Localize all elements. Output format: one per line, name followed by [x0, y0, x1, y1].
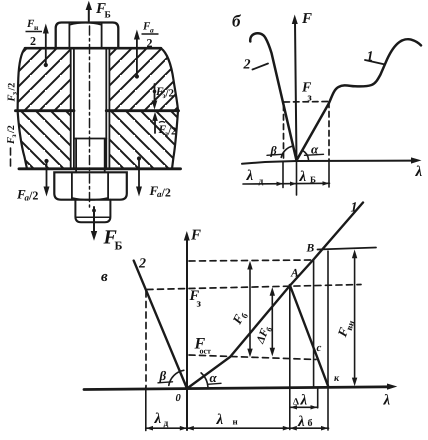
svg-text:a: a: [150, 26, 154, 35]
vertical through K: [327, 251, 329, 430]
svg-text:в: в: [101, 269, 108, 285]
svg-text:б: б: [232, 12, 242, 31]
svg-text:з: з: [197, 298, 202, 310]
svg-text:к: к: [334, 373, 340, 384]
force arrow Fa/2 top-right: [136, 37, 138, 76]
svg-text:з: з: [10, 92, 19, 95]
bottom plate bottom edge: [19, 167, 181, 170]
dimension dF_B vertical: [271, 292, 273, 352]
dashed drop right graph b: [328, 102, 330, 161]
axis lambda graph b: [242, 161, 414, 164]
dashed drop at line 2: [145, 291, 147, 387]
svg-text:1: 1: [367, 50, 374, 65]
svg-text:/2: /2: [167, 126, 177, 138]
svg-text:β: β: [159, 368, 167, 383]
line AK graph v: [290, 285, 328, 386]
svg-text:α: α: [210, 370, 218, 385]
svg-text:λ: λ: [216, 412, 224, 428]
force arrow F_B top: [88, 6, 90, 21]
angle beta arc graph b: [281, 146, 293, 157]
angle alpha arc graph v: [201, 373, 208, 387]
curve 1 graph b: [297, 39, 422, 160]
bolt axis center line: [89, 26, 91, 207]
svg-text:Б: Б: [310, 175, 316, 185]
joint interface line: [16, 109, 179, 112]
hatch bottom-right plate: [109, 111, 178, 169]
dashed level F_ost: [189, 355, 316, 360]
svg-text:ост: ост: [200, 347, 212, 356]
pointer for label 1: [365, 60, 385, 65]
dimension F_B vertical: [249, 266, 251, 352]
svg-text:з: з: [308, 93, 312, 104]
force arrow Fz/2 right upper (down at interface): [154, 84, 156, 103]
dashed Fz level through A: [147, 285, 361, 290]
threaded shank lines: [76, 139, 105, 173]
force arrow Fa/2 bottom-left: [46, 162, 48, 189]
svg-text:/2: /2: [165, 88, 175, 100]
angle alpha arc graph b: [303, 150, 309, 159]
svg-text:0: 0: [176, 393, 182, 404]
svg-text:A: A: [290, 268, 299, 280]
svg-text:λ: λ: [299, 169, 307, 185]
svg-text:д: д: [164, 419, 169, 429]
svg-text:F: F: [301, 11, 312, 27]
svg-text:2: 2: [138, 257, 146, 272]
svg-text:/2: /2: [6, 125, 17, 134]
label F_BN rotated: [334, 317, 356, 341]
svg-text:2: 2: [147, 36, 153, 50]
bolt head: [56, 23, 119, 49]
plate right edge top: [161, 48, 178, 110]
force arrow Fn/2 top-left: [45, 31, 47, 64]
svg-text:α: α: [311, 142, 319, 157]
svg-text:/2: /2: [161, 186, 171, 200]
thread start line: [74, 138, 106, 140]
label dF_B rotated: [254, 324, 274, 347]
svg-text:λ: λ: [297, 414, 305, 430]
vertical through B: [313, 260, 315, 388]
left edge small marks: [10, 148, 12, 166]
svg-text:c: c: [317, 342, 322, 354]
label F_B rotated: [229, 308, 251, 328]
svg-text:н: н: [34, 23, 39, 32]
dimension delta-lambda row: [290, 406, 317, 408]
svg-text:F: F: [190, 228, 201, 244]
vertical through A: [289, 286, 291, 430]
label Fz/2 left rotated upper: [7, 83, 19, 103]
dimension F_BN vertical: [354, 255, 356, 381]
dimension row graph b: [243, 182, 330, 185]
svg-text:/2: /2: [28, 189, 38, 203]
svg-text:д: д: [259, 177, 264, 187]
svg-text:λ: λ: [300, 393, 308, 409]
curve 2 graph b: [250, 33, 296, 160]
svg-text:2: 2: [30, 34, 36, 48]
force arrow Fa/2 bottom-right: [138, 159, 140, 189]
top plate top edge: [25, 47, 161, 50]
plate left edge bottom: [18, 111, 27, 169]
extension verticals graph b: [283, 161, 329, 195]
nut: [54, 172, 127, 199]
hatch top-right plate: [109, 48, 178, 110]
svg-text:б: б: [308, 418, 313, 429]
axis F graph v: [186, 239, 188, 430]
extension below at line 2 drop: [145, 387, 147, 431]
force arrow F_B bottom: [93, 207, 95, 233]
svg-text:Δ: Δ: [293, 398, 299, 408]
svg-text:λ: λ: [246, 168, 254, 184]
bolt hole left lines: [71, 48, 74, 169]
svg-text:λ: λ: [383, 393, 391, 409]
dashed level Fz graph b: [284, 101, 330, 104]
label Fz/2 left rotated lower: [6, 125, 18, 145]
svg-text:λ: λ: [415, 164, 423, 180]
svg-text:В: В: [306, 243, 315, 255]
pointer for label 2: [253, 64, 269, 70]
axis lambda graph v: [84, 387, 390, 390]
svg-text:/2: /2: [7, 83, 18, 92]
hatch top-left plate: [18, 48, 71, 110]
svg-text:λ: λ: [154, 411, 162, 427]
dashed level B: [189, 260, 313, 261]
svg-text:Б: Б: [105, 11, 111, 21]
vertical c drop below axis: [317, 388, 319, 408]
line 2 graph v: [134, 261, 187, 389]
svg-text:н: н: [233, 417, 238, 427]
svg-text:з: з: [9, 134, 18, 137]
bolt end: [75, 200, 110, 223]
dashed drop left graph b: [283, 105, 285, 161]
force arrow Fz/2 right lower (up at interface): [154, 119, 156, 133]
angle beta arc graph v: [169, 370, 184, 385]
plate right edge bottom: [172, 111, 178, 169]
svg-text:1: 1: [351, 201, 358, 216]
axis F graph b: [295, 22, 297, 161]
cap line right of line 1: [318, 248, 377, 250]
hatch bottom-left plate: [18, 111, 71, 169]
dimension row bottom graph v: [146, 427, 329, 429]
svg-text:2: 2: [243, 58, 251, 73]
svg-text:β: β: [270, 144, 278, 158]
bolt hole right lines: [106, 48, 109, 169]
line 1 graph v: [187, 203, 363, 389]
svg-text:Б: Б: [115, 239, 123, 253]
plate left edge top: [18, 48, 25, 110]
